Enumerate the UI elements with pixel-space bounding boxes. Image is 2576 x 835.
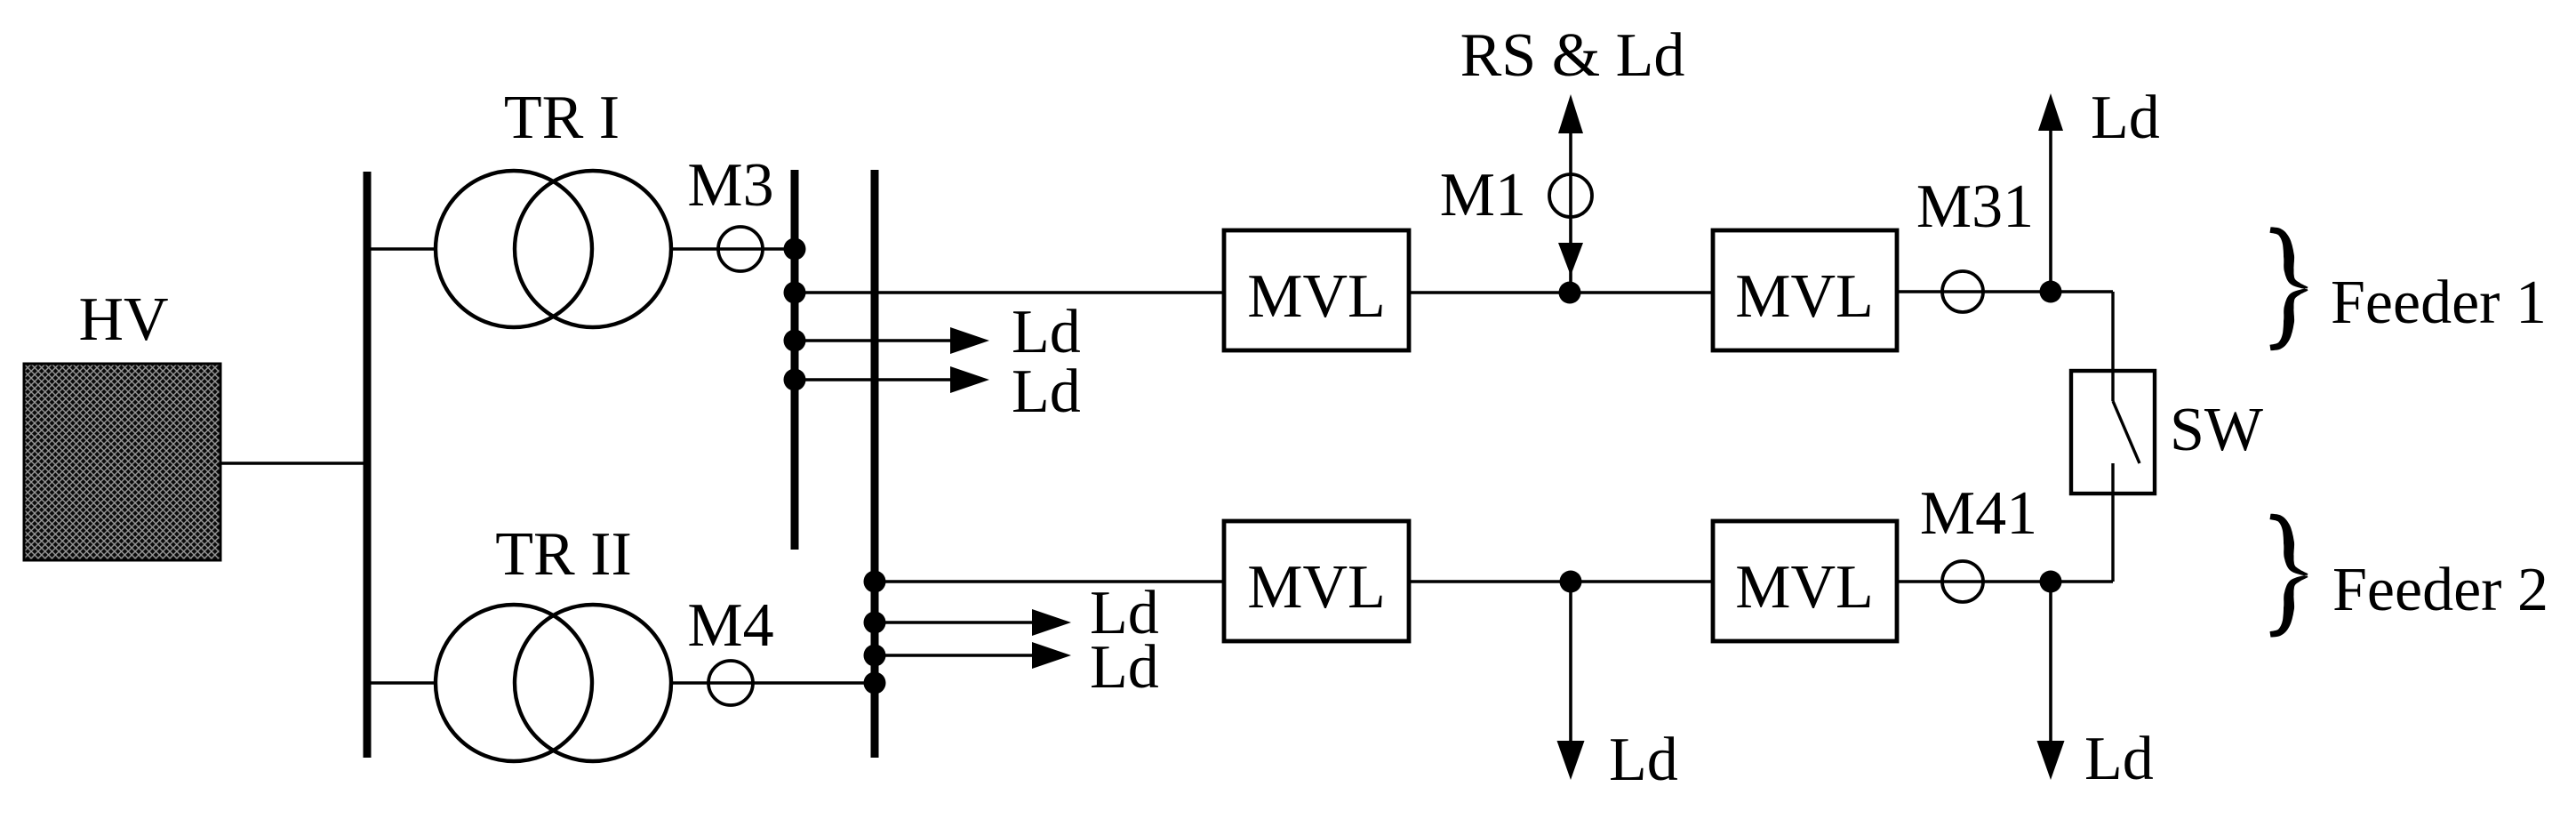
svg-text:Feeder 1: Feeder 1 <box>2331 269 2547 337</box>
bus 2 <box>871 170 879 758</box>
wire MVL2 to M31 <box>1897 290 2051 293</box>
load arrow up at feeder1 node <box>2049 129 2052 292</box>
svg-text:M4: M4 <box>687 591 773 660</box>
transformer TR II <box>436 605 592 761</box>
left bus <box>364 172 372 758</box>
junction bus1 / feeder 1 <box>784 282 806 304</box>
load arrow Ld b from bus1 <box>798 378 956 381</box>
svg-text:MVL: MVL <box>1735 553 1874 622</box>
svg-text:Ld: Ld <box>1012 357 1081 426</box>
svg-text:MVL: MVL <box>1247 553 1386 622</box>
wire TR I to M3 <box>671 247 795 250</box>
RS & Ld branch at M1 <box>1569 102 1572 293</box>
junction bus2 / feeder 2 <box>864 571 886 593</box>
svg-text:Ld: Ld <box>1090 633 1159 702</box>
brace feeder 1 <box>2270 227 2308 350</box>
node feeder1 tap <box>1559 282 1581 304</box>
meter M3 <box>718 227 763 271</box>
node feeder2 right <box>2040 571 2062 593</box>
load arrow Ld d from bus2 <box>878 654 1037 657</box>
meter M41 <box>1942 561 1983 602</box>
wire MVL4 to M41 <box>1897 580 2051 582</box>
brace feeder 2 <box>2270 514 2308 638</box>
node feeder1 right <box>2040 281 2062 303</box>
MVL box 3 <box>1224 521 1409 641</box>
junction bus1 / M3 <box>784 238 806 261</box>
MVL box 2 <box>1713 230 1897 350</box>
svg-text:Feeder 2: Feeder 2 <box>2332 556 2548 624</box>
svg-text:HV: HV <box>78 285 168 354</box>
svg-text:RS & Ld: RS & Ld <box>1460 21 1685 90</box>
svg-text:Ld: Ld <box>2084 725 2154 793</box>
transformer TR I <box>436 171 592 327</box>
junction bus1 / load arrow a <box>784 330 806 352</box>
svg-text:M3: M3 <box>687 151 773 220</box>
wire HV to left bus <box>220 462 371 464</box>
svg-text:MVL: MVL <box>1735 262 1874 331</box>
HV source block <box>24 364 220 560</box>
feeder 2 wire bus2 to MVL box 3 <box>875 580 1224 582</box>
meter M31 <box>1942 271 1983 312</box>
junction bus2 / load arrow c <box>864 612 886 634</box>
svg-text:Ld: Ld <box>1012 298 1081 366</box>
MVL box 1 <box>1224 230 1409 350</box>
bus 1 <box>791 170 799 550</box>
wire corner down into SW <box>2111 292 2114 401</box>
svg-text:M1: M1 <box>1440 161 1526 229</box>
junction bus1 / load arrow b <box>784 369 806 391</box>
junction bus2 / M4 <box>864 672 886 694</box>
wire left bus to TR I <box>371 247 437 250</box>
MVL box 4 <box>1713 521 1897 641</box>
wire left bus to TR II <box>371 681 437 684</box>
svg-text:M41: M41 <box>1920 479 2037 548</box>
switch blade <box>2111 371 2114 401</box>
svg-text:Ld: Ld <box>2091 84 2160 152</box>
load arrow Ld c from bus2 <box>878 621 1037 624</box>
wire node to SW corner <box>2051 290 2113 293</box>
junction bus2 / load arrow d <box>864 645 886 667</box>
svg-text:M31: M31 <box>1916 173 2034 241</box>
svg-text:TR I: TR I <box>504 84 620 152</box>
wire TR II to M4 <box>671 681 875 684</box>
wire MVL1 to MVL2 <box>1409 291 1713 293</box>
wire node to SW bottom corner <box>2051 580 2113 582</box>
load arrow Ld a from bus1 <box>798 339 956 342</box>
meter M4 <box>708 661 753 705</box>
wire MVL3 to MVL4 <box>1409 580 1713 582</box>
meter M1 <box>1549 174 1592 217</box>
node feeder2 tap <box>1560 571 1582 593</box>
load arrow down at feeder2 node <box>2049 582 2052 747</box>
switch SW box <box>2071 371 2155 494</box>
svg-text:MVL: MVL <box>1247 262 1386 331</box>
svg-text:SW: SW <box>2170 396 2263 464</box>
load arrow down at feeder2 tap <box>1569 582 1572 747</box>
feeder 1 wire bus1 to MVL box 1 <box>795 291 1224 293</box>
svg-text:Ld: Ld <box>1609 726 1678 794</box>
svg-text:TR II: TR II <box>495 520 632 589</box>
